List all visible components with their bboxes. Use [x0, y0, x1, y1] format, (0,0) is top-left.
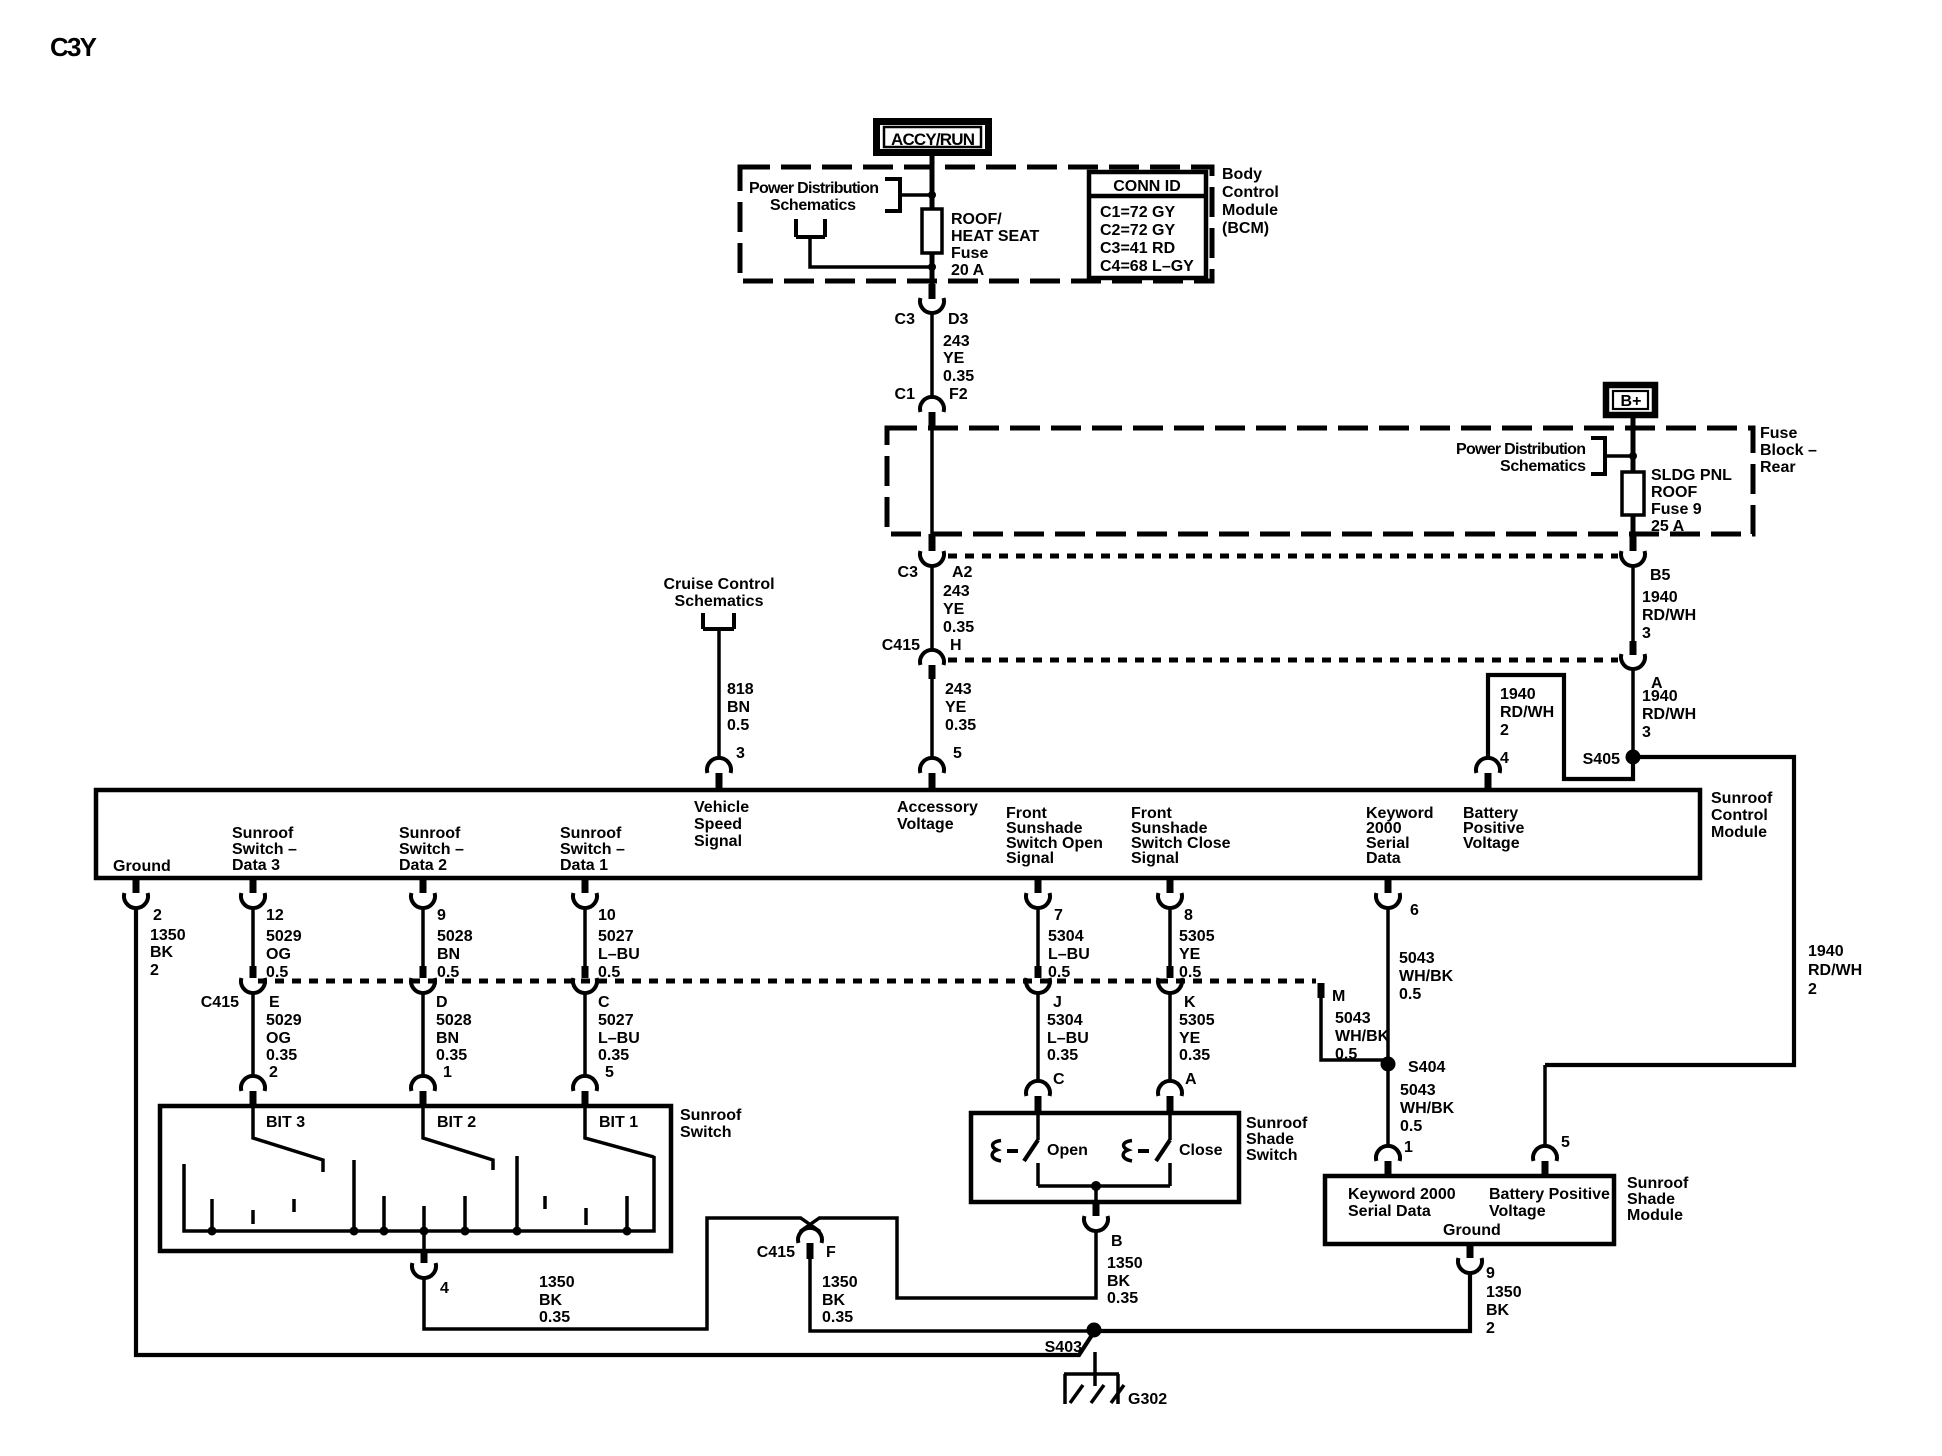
- svg-text:5: 5: [1561, 1134, 1570, 1151]
- svg-text:C: C: [1053, 1071, 1065, 1088]
- svg-text:5305: 5305: [1179, 928, 1215, 945]
- Sunroof Switch box: [160, 1106, 671, 1251]
- svg-text:Accessory: Accessory: [897, 799, 978, 816]
- wire 1350 BK 0.35 (B to C415 F): [819, 1218, 1096, 1298]
- wire 243 YE 0.35 (D3 to F2): [930, 313, 934, 399]
- svg-text:5: 5: [953, 745, 962, 762]
- svg-text:YE: YE: [943, 350, 965, 367]
- svg-text:CONN ID: CONN ID: [1113, 178, 1181, 195]
- bracket to Power Distribution Schematics (fuse block): [1591, 438, 1605, 474]
- svg-text:0.35: 0.35: [945, 717, 976, 734]
- svg-text:S405: S405: [1583, 751, 1620, 768]
- svg-text:J: J: [1053, 994, 1062, 1011]
- connector SCM pin 12 data 3: [241, 878, 284, 924]
- switch common bus: [184, 1156, 654, 1231]
- svg-text:1350: 1350: [1107, 1255, 1143, 1272]
- svg-text:243: 243: [945, 681, 972, 698]
- svg-text:0.35: 0.35: [539, 1309, 570, 1326]
- svg-text:BIT 3: BIT 3: [266, 1114, 305, 1131]
- wire 1940 RD/WH (B5 to A): [1631, 566, 1635, 641]
- wire 1940 RD/WH 2 (S405 to sunroof shade module pin 5): [1545, 757, 1794, 1065]
- bracket cruise control: [703, 613, 734, 629]
- inline harness dotted row 2: [948, 658, 1618, 663]
- wire 5029 OG 0.35 (E to switch 2): [251, 993, 255, 1077]
- svg-text:5043: 5043: [1400, 1082, 1436, 1099]
- svg-text:L–BU: L–BU: [598, 1030, 640, 1047]
- svg-text:2: 2: [150, 962, 159, 979]
- svg-text:Keyword 2000: Keyword 2000: [1348, 1186, 1456, 1203]
- svg-text:A2: A2: [952, 564, 973, 581]
- svg-text:Cruise Control: Cruise Control: [663, 576, 774, 593]
- label wire 5305 YE 0.5: [1179, 928, 1215, 981]
- SCM pin label Front Sunshade Switch Close Signal: [1131, 805, 1231, 867]
- svg-text:WH/BK: WH/BK: [1335, 1028, 1390, 1045]
- svg-text:Vehicle: Vehicle: [694, 799, 749, 816]
- label wire 5304 L-BU 0.35: [1047, 1012, 1089, 1064]
- fuse ROOF/HEAT SEAT 20 A: [922, 209, 942, 253]
- svg-text:OG: OG: [266, 946, 291, 963]
- power feed label ACCY/RUN: [877, 122, 989, 153]
- label wire 243 YE 0.35 (H-5): [945, 681, 976, 734]
- svg-text:1940: 1940: [1500, 686, 1536, 703]
- svg-text:Control: Control: [1222, 184, 1279, 201]
- svg-text:8: 8: [1184, 907, 1193, 924]
- svg-text:Sunroof: Sunroof: [560, 825, 622, 842]
- connector shade switch pin A: [1158, 1071, 1197, 1113]
- splice S405: [1583, 750, 1641, 769]
- svg-text:0.5: 0.5: [598, 964, 620, 981]
- svg-text:C2=72 GY: C2=72 GY: [1100, 222, 1175, 239]
- wire 818 BN 0.5 (vehicle speed signal): [717, 629, 721, 759]
- svg-text:C3: C3: [895, 311, 916, 328]
- connector shade switch pin B: [1084, 1202, 1123, 1250]
- svg-text:C415: C415: [757, 1244, 795, 1261]
- bracket to Power Distribution Schematics: [885, 179, 900, 211]
- svg-text:1: 1: [1404, 1139, 1413, 1156]
- label wire 5027 L-BU 0.5: [598, 928, 640, 981]
- connector sunroof switch pin 4: [412, 1251, 449, 1297]
- svg-text:5029: 5029: [266, 928, 302, 945]
- svg-text:BN: BN: [727, 699, 750, 716]
- svg-text:Shade: Shade: [1246, 1131, 1294, 1148]
- svg-text:G302: G302: [1128, 1391, 1167, 1408]
- svg-text:C1=72 GY: C1=72 GY: [1100, 204, 1175, 221]
- node junction on ACCY trunk: [928, 191, 936, 199]
- svg-text:Data 1: Data 1: [560, 857, 608, 874]
- svg-text:2: 2: [269, 1064, 278, 1081]
- svg-text:1: 1: [443, 1064, 452, 1081]
- svg-text:YE: YE: [1179, 946, 1201, 963]
- svg-text:5028: 5028: [436, 1012, 472, 1029]
- svg-text:Switch –: Switch –: [232, 841, 297, 858]
- connector C415 pin M (dashed end): [1321, 983, 1345, 1005]
- connector SCM pin 10 data 1: [573, 878, 616, 924]
- svg-text:Voltage: Voltage: [1463, 835, 1520, 852]
- svg-text:Signal: Signal: [1006, 850, 1054, 867]
- svg-text:BN: BN: [437, 946, 460, 963]
- label wire 818 BN 0.5: [727, 681, 754, 734]
- wire 5028 BN (pin9 to C415 D): [421, 908, 425, 966]
- label Body Control Module (BCM): [1222, 166, 1279, 237]
- label wire 5043 WH/BK 0.5 (S404 to pin1): [1400, 1082, 1455, 1135]
- svg-text:Fuse 9: Fuse 9: [1651, 501, 1702, 518]
- svg-text:Switch: Switch: [680, 1124, 732, 1141]
- svg-text:Module: Module: [1222, 202, 1278, 219]
- svg-text:0.35: 0.35: [266, 1047, 297, 1064]
- svg-text:1350: 1350: [150, 927, 186, 944]
- wire ACCY/RUN trunk vertical: [930, 152, 935, 284]
- switch contact ticks: [212, 1156, 627, 1231]
- svg-text:BK: BK: [539, 1292, 563, 1309]
- label wire 5028 BN 0.5: [437, 928, 473, 981]
- svg-text:Data 3: Data 3: [232, 857, 280, 874]
- svg-text:9: 9: [1486, 1265, 1495, 1282]
- svg-text:L–BU: L–BU: [1048, 946, 1090, 963]
- svg-text:Speed: Speed: [694, 816, 742, 833]
- svg-text:ROOF/: ROOF/: [951, 211, 1002, 228]
- label wire 1940 RD/WH 3 (A): [1642, 688, 1696, 741]
- label wire 5043 WH/BK 0.5 (M): [1335, 1010, 1390, 1063]
- connector SCM pin 8 sunshade close: [1158, 878, 1193, 924]
- wire 243 YE 0.35 (A2 to C415 H): [930, 566, 934, 651]
- svg-text:Signal: Signal: [694, 833, 742, 850]
- switch BIT3 blade: [253, 1106, 323, 1172]
- svg-text:0.35: 0.35: [436, 1047, 467, 1064]
- svg-text:5304: 5304: [1048, 928, 1084, 945]
- wire bracket to ACCY trunk: [900, 193, 932, 197]
- inline harness dotted row C415: [258, 979, 1316, 984]
- Sunroof Control Module box: [96, 790, 1700, 878]
- label wire 5029 OG 0.5: [266, 928, 302, 981]
- svg-text:243: 243: [943, 333, 970, 350]
- wire 1350 BK 0.35 (switch 4 to C415 F): [424, 1218, 801, 1329]
- wire shade switch common bus: [1038, 1184, 1170, 1188]
- svg-text:Power Distribution: Power Distribution: [1456, 441, 1586, 458]
- connector SCM pin 9 data 2: [411, 878, 446, 924]
- svg-text:D: D: [436, 994, 448, 1011]
- connector C3 pin D3 (BCM out): [895, 284, 969, 328]
- Sunroof Shade Module box: [1325, 1176, 1614, 1244]
- label wire 5043 WH/BK 0.5 (pin6): [1399, 950, 1454, 1003]
- connector C415 pin D: [411, 966, 448, 1011]
- svg-text:0.5: 0.5: [1399, 986, 1421, 1003]
- svg-text:RD/WH: RD/WH: [1808, 962, 1862, 979]
- label wire 1940 RD/WH 2 (right): [1808, 943, 1862, 998]
- svg-text:0.5: 0.5: [266, 964, 288, 981]
- svg-text:BIT 1: BIT 1: [599, 1114, 638, 1131]
- connector C1 pin F2 (into fuse block): [895, 386, 968, 428]
- splice S404: [1381, 1057, 1446, 1077]
- svg-text:Battery Positive: Battery Positive: [1489, 1186, 1610, 1203]
- svg-text:YE: YE: [943, 601, 965, 618]
- SCM pin label Accessory Voltage: [897, 799, 978, 833]
- svg-text:BIT 2: BIT 2: [437, 1114, 476, 1131]
- wire ground 1350 BK (SCM pin2 to S403): [136, 908, 1094, 1355]
- label wire 5027 L-BU 0.35: [598, 1012, 640, 1064]
- svg-text:YE: YE: [945, 699, 967, 716]
- svg-text:Schematics: Schematics: [1500, 458, 1586, 475]
- wire 243 YE 0.35 (H to SCM pin 5): [930, 679, 934, 759]
- connector SCM pin 7 sunshade open: [1026, 878, 1063, 924]
- svg-text:Voltage: Voltage: [897, 816, 954, 833]
- connector SCM pin 2 ground: [124, 878, 162, 924]
- wire 5027 L-BU (pin10 to C415 C): [583, 908, 587, 966]
- svg-text:5043: 5043: [1399, 950, 1435, 967]
- svg-text:A: A: [1185, 1071, 1197, 1088]
- svg-text:Data 2: Data 2: [399, 857, 447, 874]
- ground G302: [1064, 1352, 1167, 1408]
- svg-text:3: 3: [1642, 625, 1651, 642]
- svg-text:Shade: Shade: [1627, 1191, 1675, 1208]
- svg-text:1350: 1350: [822, 1274, 858, 1291]
- svg-text:2: 2: [153, 907, 162, 924]
- svg-text:C1: C1: [895, 386, 916, 403]
- label wire 5305 YE 0.35: [1179, 1012, 1215, 1064]
- wire shade switch output: [1094, 1186, 1098, 1202]
- svg-text:0.35: 0.35: [822, 1309, 853, 1326]
- svg-text:Data: Data: [1366, 850, 1401, 867]
- svg-text:Switch: Switch: [1246, 1147, 1298, 1164]
- svg-text:Serial Data: Serial Data: [1348, 1203, 1431, 1220]
- label fuse ROOF/HEAT SEAT: [951, 211, 1040, 279]
- svg-text:BK: BK: [1486, 1302, 1510, 1319]
- connector C415 pin C: [573, 966, 610, 1011]
- svg-text:5043: 5043: [1335, 1010, 1371, 1027]
- svg-text:H: H: [950, 637, 962, 654]
- svg-text:Voltage: Voltage: [1489, 1203, 1546, 1220]
- svg-text:L–BU: L–BU: [598, 946, 640, 963]
- label Fuse Block - Rear: [1760, 425, 1817, 476]
- connector C415 pin H (left, row 2): [882, 637, 962, 679]
- svg-text:1350: 1350: [1486, 1284, 1522, 1301]
- svg-text:0.35: 0.35: [1107, 1290, 1138, 1307]
- svg-text:Block –: Block –: [1760, 442, 1817, 459]
- connector SCM pin 4 battery positive: [1476, 750, 1509, 789]
- svg-text:C415: C415: [201, 994, 239, 1011]
- svg-text:D3: D3: [948, 311, 969, 328]
- SCM pin label Battery Positive Voltage: [1463, 805, 1524, 852]
- svg-text:0.35: 0.35: [943, 368, 974, 385]
- wire 5043 WH/BK (pin6 to S404): [1386, 908, 1390, 1064]
- connector shade module pin 1: [1376, 1139, 1413, 1176]
- wire 5304 L-BU (pin7 to C415 J): [1036, 908, 1040, 966]
- connector sunroof switch pin 5: [573, 1064, 614, 1106]
- svg-text:BN: BN: [436, 1030, 459, 1047]
- label Sunroof Control Module: [1711, 790, 1773, 841]
- svg-text:S404: S404: [1408, 1059, 1445, 1076]
- fuse SLDG PNL ROOF Fuse 9 25 A: [1622, 472, 1644, 515]
- svg-text:C3: C3: [898, 564, 919, 581]
- svg-text:Switch –: Switch –: [399, 841, 464, 858]
- node shade switch junction: [1091, 1181, 1101, 1191]
- svg-text:C3Y: C3Y: [50, 32, 97, 62]
- svg-text:3: 3: [1642, 724, 1651, 741]
- connector sunroof switch pin 2: [241, 1064, 278, 1106]
- connector C3 pin A2 (left, row 1): [898, 428, 973, 581]
- svg-text:Fuse: Fuse: [1760, 425, 1797, 442]
- wire 1350 BK 2 (pin 9 to S403): [1094, 1273, 1470, 1331]
- svg-text:WH/BK: WH/BK: [1400, 1100, 1455, 1117]
- svg-text:3: 3: [736, 745, 745, 762]
- switch BIT1 blade: [585, 1106, 654, 1157]
- svg-text:Schematics: Schematics: [770, 197, 856, 214]
- svg-text:RD/WH: RD/WH: [1642, 607, 1696, 624]
- wire 5029 OG (pin12 to C415 E): [251, 908, 255, 966]
- svg-text:12: 12: [266, 907, 284, 924]
- connector sunroof switch pin 1: [411, 1064, 452, 1106]
- svg-text:0.5: 0.5: [1400, 1118, 1422, 1135]
- svg-text:818: 818: [727, 681, 754, 698]
- connector C415 pin F: [757, 1218, 836, 1262]
- svg-text:L–BU: L–BU: [1047, 1030, 1089, 1047]
- svg-text:ROOF: ROOF: [1651, 484, 1697, 501]
- svg-text:5027: 5027: [598, 1012, 634, 1029]
- svg-text:WH/BK: WH/BK: [1399, 968, 1454, 985]
- svg-text:ACCY/RUN: ACCY/RUN: [891, 130, 975, 149]
- svg-text:Control: Control: [1711, 807, 1768, 824]
- svg-text:2: 2: [1808, 981, 1817, 998]
- svg-text:Power Distribution: Power Distribution: [749, 180, 879, 197]
- label fuse SLDG PNL ROOF: [1651, 467, 1732, 535]
- reference Power Distribution Schematics (fuse block): [1456, 441, 1586, 475]
- svg-text:Sunroof: Sunroof: [680, 1107, 742, 1124]
- reference Cruise Control Schematics: [663, 576, 774, 610]
- switch BIT2 blade: [423, 1106, 493, 1170]
- wire bracket to B+ trunk: [1605, 454, 1633, 458]
- wire lower bracket to ACCY trunk: [810, 237, 932, 267]
- label Sunroof Shade Switch: [1246, 1115, 1308, 1164]
- svg-text:Module: Module: [1711, 824, 1767, 841]
- SCM pin label Sunroof Switch - Data 3: [232, 825, 297, 874]
- svg-text:10: 10: [598, 907, 616, 924]
- svg-text:C: C: [598, 994, 610, 1011]
- label wire 5028 BN 0.35: [436, 1012, 472, 1064]
- svg-text:5: 5: [605, 1064, 614, 1081]
- svg-text:0.35: 0.35: [943, 619, 974, 636]
- svg-text:0.35: 0.35: [1179, 1047, 1210, 1064]
- label wire 243 YE 0.35 (A2-H): [943, 583, 974, 636]
- label wire 1350 BK 0.35 (switch 4): [539, 1274, 575, 1326]
- svg-text:5028: 5028: [437, 928, 473, 945]
- svg-text:25 A: 25 A: [1651, 518, 1685, 535]
- svg-text:Module: Module: [1627, 1207, 1683, 1224]
- connector C415 pin E: [201, 966, 280, 1011]
- svg-text:S403: S403: [1045, 1339, 1082, 1356]
- svg-text:1940: 1940: [1642, 688, 1678, 705]
- connector SCM pin 3 vehicle speed: [707, 745, 745, 789]
- wire 1350 BK 0.35 (F to S403): [810, 1259, 1090, 1331]
- label wire 1350 BK 0.35 (F): [822, 1274, 858, 1326]
- Fuse Block Rear dashed box: [887, 428, 1753, 534]
- splice S403: [1045, 1323, 1102, 1357]
- svg-text:Sunroof: Sunroof: [1627, 1175, 1689, 1192]
- svg-text:6: 6: [1410, 902, 1419, 919]
- svg-text:1940: 1940: [1808, 943, 1844, 960]
- svg-text:5304: 5304: [1047, 1012, 1083, 1029]
- svg-text:9: 9: [437, 907, 446, 924]
- svg-text:7: 7: [1054, 907, 1063, 924]
- wire 5305 YE 0.35 (K to shade switch A): [1168, 993, 1172, 1081]
- svg-text:Sunroof: Sunroof: [232, 825, 294, 842]
- svg-text:0.5: 0.5: [727, 717, 749, 734]
- svg-text:0.35: 0.35: [598, 1047, 629, 1064]
- Sunroof Shade Switch box: [971, 1113, 1239, 1202]
- label wire 1350 BK 0.35 (B): [1107, 1255, 1143, 1307]
- svg-text:0.35: 0.35: [1047, 1047, 1078, 1064]
- svg-text:F2: F2: [949, 386, 968, 403]
- node bus junctions: [208, 1227, 632, 1236]
- power feed label B+: [1606, 385, 1655, 415]
- connector shade switch pin C: [1026, 1071, 1065, 1113]
- connector pin A (right, row 2): [1621, 641, 1663, 692]
- svg-text:Sunroof: Sunroof: [399, 825, 461, 842]
- svg-text:Ground: Ground: [113, 858, 171, 875]
- svg-text:2: 2: [1486, 1320, 1495, 1337]
- svg-text:YE: YE: [1179, 1030, 1201, 1047]
- svg-text:E: E: [269, 994, 280, 1011]
- connector SCM pin 6 keyword serial: [1376, 878, 1419, 919]
- node junction lower on ACCY trunk: [928, 263, 936, 271]
- Body Control Module dashed box: [740, 167, 1212, 281]
- label wire 1940 RD/WH 3 (B5): [1642, 589, 1696, 642]
- svg-text:BK: BK: [150, 944, 174, 961]
- label wire 1940 RD/WH 2 (goalpost): [1500, 686, 1554, 739]
- shade module pin label Battery Positive Voltage: [1489, 1186, 1610, 1220]
- svg-text:5305: 5305: [1179, 1012, 1215, 1029]
- label wire 1350 BK 2 (pin 9): [1486, 1284, 1522, 1337]
- svg-text:243: 243: [943, 583, 970, 600]
- svg-text:Schematics: Schematics: [675, 593, 764, 610]
- switch open contact ticks: [253, 1196, 586, 1225]
- connector pin B5 (right, row 1): [1621, 533, 1671, 584]
- wire switch output to pin 4: [422, 1231, 426, 1251]
- svg-text:C415: C415: [882, 637, 920, 654]
- svg-text:4: 4: [1500, 750, 1509, 767]
- wire 5304 L-BU 0.35 (J to shade switch C): [1036, 993, 1040, 1081]
- svg-text:Sunroof: Sunroof: [1246, 1115, 1308, 1132]
- wire 5305 YE (pin8 to C415 K): [1168, 908, 1172, 966]
- wire 1940 RD/WH (A to S405): [1631, 669, 1635, 753]
- wire to shade module pin 5: [1543, 1065, 1547, 1146]
- bracket lower (power distribution return): [796, 219, 825, 237]
- reference Power Distribution Schematics (BCM): [749, 180, 879, 214]
- svg-text:RD/WH: RD/WH: [1642, 706, 1696, 723]
- wire B+ trunk vertical: [1631, 415, 1636, 533]
- connector C415 pin K: [1158, 966, 1196, 1011]
- svg-text:SLDG PNL: SLDG PNL: [1651, 467, 1732, 484]
- svg-text:K: K: [1184, 994, 1196, 1011]
- svg-text:B: B: [1111, 1233, 1123, 1250]
- svg-text:Body: Body: [1222, 166, 1262, 183]
- svg-text:1350: 1350: [539, 1274, 575, 1291]
- svg-text:C4=68 L–GY: C4=68 L–GY: [1100, 258, 1194, 275]
- svg-text:4: 4: [440, 1280, 449, 1297]
- switch close (shade): [1123, 1113, 1223, 1186]
- svg-text:C3=41 RD: C3=41 RD: [1100, 240, 1175, 257]
- svg-text:5029: 5029: [266, 1012, 302, 1029]
- svg-text:BK: BK: [1107, 1273, 1131, 1290]
- node junction on B+ trunk: [1629, 452, 1637, 460]
- wire 5043 WH/BK (M to S404): [1321, 998, 1388, 1060]
- svg-text:0.5: 0.5: [437, 964, 459, 981]
- SCM pin label Keyword 2000 Serial Data: [1366, 805, 1434, 867]
- wire 5043 WH/BK (S404 to shade module 1): [1386, 1064, 1390, 1146]
- svg-text:Rear: Rear: [1760, 459, 1796, 476]
- SCM pin label Sunroof Switch - Data 2: [399, 825, 464, 874]
- svg-text:Signal: Signal: [1131, 850, 1179, 867]
- wire 5028 BN 0.35 (D to switch 1): [421, 993, 425, 1077]
- wire 5027 L-BU 0.35 (C to switch 5): [583, 993, 587, 1077]
